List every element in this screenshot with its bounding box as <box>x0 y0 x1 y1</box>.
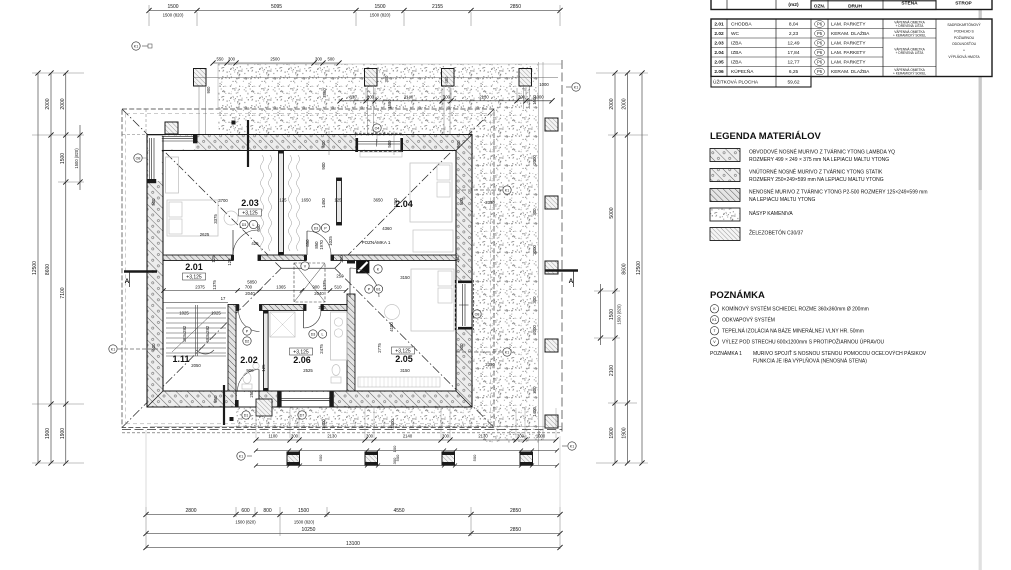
svg-text:2100: 2100 <box>609 365 615 376</box>
svg-text:K1: K1 <box>505 350 509 354</box>
svg-text:POŽIARNOU: POŽIARNOU <box>954 35 975 40</box>
svg-text:2.06: 2.06 <box>293 355 311 365</box>
svg-text:800: 800 <box>263 508 272 514</box>
svg-text:5095: 5095 <box>271 4 282 10</box>
svg-text:4100: 4100 <box>389 322 394 332</box>
svg-text:O8: O8 <box>136 156 141 160</box>
svg-text:300: 300 <box>315 57 323 62</box>
svg-text:1365: 1365 <box>276 285 286 290</box>
svg-text:+3,125: +3,125 <box>293 350 309 356</box>
svg-text:300: 300 <box>228 57 236 62</box>
svg-text:2000: 2000 <box>532 155 537 165</box>
svg-text:ODOLNOSŤOU: ODOLNOSŤOU <box>952 41 977 46</box>
svg-text:1500 (820): 1500 (820) <box>74 148 79 169</box>
svg-text:2.01: 2.01 <box>185 262 203 272</box>
svg-text:2000: 2000 <box>622 98 628 109</box>
svg-text:2500: 2500 <box>270 57 280 62</box>
svg-text:8600: 8600 <box>622 263 628 274</box>
svg-text:100: 100 <box>392 445 397 452</box>
svg-text:300: 300 <box>518 94 526 99</box>
svg-text:+: + <box>963 49 965 53</box>
svg-text:POZNÁMKA: POZNÁMKA <box>710 290 765 301</box>
svg-text:+ DREVENÁ LIŠTA: + DREVENÁ LIŠTA <box>896 50 925 55</box>
svg-text:125: 125 <box>334 198 342 203</box>
svg-text:500: 500 <box>151 343 156 351</box>
svg-text:250: 250 <box>318 305 326 310</box>
svg-text:1500: 1500 <box>374 4 385 10</box>
svg-text:2000: 2000 <box>532 245 537 255</box>
svg-text:900: 900 <box>312 285 320 290</box>
svg-text:1500: 1500 <box>609 309 615 320</box>
svg-text:1450: 1450 <box>321 198 326 208</box>
svg-text:2130: 2130 <box>478 434 488 439</box>
svg-text:8600: 8600 <box>45 264 51 275</box>
svg-text:POZNÁMKA 1: POZNÁMKA 1 <box>362 239 391 245</box>
svg-text:59,62: 59,62 <box>787 80 799 86</box>
svg-text:1900: 1900 <box>60 428 66 439</box>
svg-text:1900: 1900 <box>45 428 51 439</box>
svg-text:900: 900 <box>246 368 254 373</box>
svg-text:850: 850 <box>305 239 310 247</box>
svg-text:+3,125: +3,125 <box>186 275 202 281</box>
svg-text:1375: 1375 <box>322 280 327 290</box>
svg-text:2475: 2475 <box>319 344 324 354</box>
svg-text:1025: 1025 <box>211 311 221 316</box>
svg-text:300: 300 <box>291 434 299 439</box>
svg-text:1250: 1250 <box>393 198 398 208</box>
svg-text:+ KERAMICKÝ SOKEL: + KERAMICKÝ SOKEL <box>893 71 926 75</box>
svg-text:550: 550 <box>213 395 218 403</box>
svg-text:K1: K1 <box>570 444 574 448</box>
svg-text:1.11: 1.11 <box>172 354 189 364</box>
svg-text:1500 (820): 1500 (820) <box>370 13 391 18</box>
svg-text:P6: P6 <box>817 22 823 27</box>
svg-text:1650: 1650 <box>301 198 311 203</box>
svg-text:2140: 2140 <box>404 94 414 99</box>
svg-text:O4: O4 <box>375 126 380 130</box>
svg-text:2850: 2850 <box>510 527 521 533</box>
svg-text:NENOSNÉ MURIVO Z TVÁRNIC YTONG: NENOSNÉ MURIVO Z TVÁRNIC YTONG P2-500 RO… <box>749 189 928 196</box>
svg-text:2155: 2155 <box>432 4 443 10</box>
svg-text:LAM. PARKETY: LAM. PARKETY <box>831 41 866 47</box>
svg-text:NA LEPIACU MALTU YTONG: NA LEPIACU MALTU YTONG <box>749 197 816 203</box>
svg-text:DRUH: DRUH <box>848 3 862 9</box>
svg-text:1000: 1000 <box>534 94 544 99</box>
svg-text:2000: 2000 <box>532 325 537 335</box>
svg-text:1375: 1375 <box>212 280 217 290</box>
svg-text:125: 125 <box>261 364 266 372</box>
svg-text:PODHĽAD S: PODHĽAD S <box>954 29 974 33</box>
svg-text:P6: P6 <box>817 60 823 65</box>
svg-text:ROZMERY 250×249×599 mm NA LEPI: ROZMERY 250×249×599 mm NA LEPIACU MALTU … <box>749 177 884 183</box>
svg-text:P6: P6 <box>817 41 823 46</box>
svg-text:1500: 1500 <box>387 99 392 109</box>
svg-text:LAM. PARKETY: LAM. PARKETY <box>831 60 866 66</box>
svg-text:300: 300 <box>532 386 537 394</box>
svg-text:1500: 1500 <box>298 508 309 514</box>
svg-text:500: 500 <box>321 140 326 148</box>
svg-text:K1: K1 <box>239 454 243 458</box>
svg-text:K1: K1 <box>712 318 716 322</box>
svg-text:SADROKARTÓNOVÝ: SADROKARTÓNOVÝ <box>947 22 981 27</box>
svg-text:1500 (820): 1500 (820) <box>235 520 256 525</box>
svg-text:1025: 1025 <box>179 311 189 316</box>
svg-text:500: 500 <box>472 454 477 461</box>
svg-text:LEGENDA MATERIÁLOV: LEGENDA MATERIÁLOV <box>710 131 821 142</box>
svg-text:2800: 2800 <box>185 508 196 514</box>
svg-text:IZBA: IZBA <box>731 50 742 56</box>
svg-text:2,23: 2,23 <box>789 31 799 37</box>
svg-text:183x282: 183x282 <box>182 325 187 342</box>
svg-text:LAM. PARKETY: LAM. PARKETY <box>831 22 866 28</box>
svg-text:250: 250 <box>455 255 460 263</box>
svg-text:NÁSYP KAMENIVA: NÁSYP KAMENIVA <box>749 210 793 217</box>
svg-text:D3: D3 <box>242 223 247 227</box>
svg-text:13100: 13100 <box>346 541 360 547</box>
svg-text:OBVODOVÉ NOSNÉ MURIVO Z TVÁRNI: OBVODOVÉ NOSNÉ MURIVO Z TVÁRNIC YTONG LA… <box>749 149 895 156</box>
svg-text:+3,125: +3,125 <box>395 349 411 355</box>
svg-text:P5: P5 <box>817 31 823 36</box>
svg-text:3150: 3150 <box>400 275 410 280</box>
svg-text:O8: O8 <box>475 312 480 316</box>
svg-text:2040: 2040 <box>245 291 255 296</box>
svg-text:500: 500 <box>459 343 464 351</box>
svg-text:K1: K1 <box>574 85 578 89</box>
svg-text:2.06: 2.06 <box>714 69 724 75</box>
svg-text:900: 900 <box>321 162 326 170</box>
svg-text:2130: 2130 <box>327 434 337 439</box>
svg-text:125: 125 <box>279 198 287 203</box>
svg-text:3375: 3375 <box>213 214 218 224</box>
svg-text:425: 425 <box>251 241 259 246</box>
svg-text:250: 250 <box>249 390 254 398</box>
svg-text:1900: 1900 <box>609 427 615 438</box>
svg-text:3700: 3700 <box>218 198 228 203</box>
svg-text:300: 300 <box>443 94 451 99</box>
svg-text:K1: K1 <box>111 347 115 351</box>
svg-text:OZN.: OZN. <box>814 3 825 9</box>
svg-text:450: 450 <box>444 76 449 84</box>
svg-text:MURIVO SPOJIŤ S NOSNOU STENOU: MURIVO SPOJIŤ S NOSNOU STENOU POMOCOU OC… <box>753 349 927 357</box>
svg-text:ŽELEZOBETÓN C30/37: ŽELEZOBETÓN C30/37 <box>749 229 803 237</box>
svg-text:A: A <box>125 278 130 285</box>
svg-text:300: 300 <box>384 75 389 83</box>
svg-text:2040: 2040 <box>314 291 324 296</box>
svg-text:12500: 12500 <box>636 261 642 275</box>
svg-text:300: 300 <box>442 434 450 439</box>
svg-text:STROP: STROP <box>955 1 972 7</box>
svg-text:2.04: 2.04 <box>714 50 724 56</box>
svg-text:KÚPEĽŇA: KÚPEĽŇA <box>731 68 754 75</box>
svg-text:1000: 1000 <box>539 82 549 87</box>
svg-text:300: 300 <box>392 457 397 464</box>
svg-text:700: 700 <box>245 285 253 290</box>
svg-text:2.02: 2.02 <box>714 31 724 37</box>
svg-text:LAM. PARKETY: LAM. PARKETY <box>831 50 866 56</box>
svg-text:4360: 4360 <box>382 226 392 231</box>
svg-text:2775: 2775 <box>377 343 382 353</box>
svg-text:ODKVAPOVÝ SYSTÉM: ODKVAPOVÝ SYSTÉM <box>722 317 775 324</box>
svg-text:600: 600 <box>256 224 261 232</box>
svg-text:300: 300 <box>532 296 537 304</box>
svg-text:STENA: STENA <box>901 1 918 7</box>
svg-text:VNÚTORNÉ NOSNÉ MURIVO Z TVÁRNI: VNÚTORNÉ NOSNÉ MURIVO Z TVÁRNIC YTONG ST… <box>749 169 883 176</box>
svg-text:1500 (820): 1500 (820) <box>163 13 184 18</box>
svg-text:1025: 1025 <box>328 236 333 246</box>
svg-text:250: 250 <box>336 274 344 279</box>
svg-text:D7: D7 <box>300 413 305 417</box>
svg-text:KOMÍNOVÝ SYSTÉM SCHIEDEL ROZM: KOMÍNOVÝ SYSTÉM SCHIEDEL ROZME 360x360mm… <box>722 306 869 313</box>
svg-text:P6: P6 <box>817 50 823 55</box>
svg-text:2850: 2850 <box>510 508 521 514</box>
svg-text:D2: D2 <box>245 339 250 343</box>
svg-text:300: 300 <box>532 208 537 216</box>
svg-text:+ DREVENÁ LIŠTA: + DREVENÁ LIŠTA <box>896 23 925 28</box>
svg-text:500: 500 <box>151 198 156 206</box>
svg-text:500: 500 <box>387 140 392 148</box>
svg-text:2350: 2350 <box>485 362 495 367</box>
svg-text:17: 17 <box>221 296 226 301</box>
svg-text:2.03: 2.03 <box>241 198 259 208</box>
svg-text:D1: D1 <box>244 413 249 417</box>
svg-text:1500 (820): 1500 (820) <box>294 520 315 525</box>
svg-text:2550: 2550 <box>322 88 327 98</box>
svg-text:2.02: 2.02 <box>240 355 258 365</box>
svg-text:500: 500 <box>318 454 323 461</box>
svg-text:+3,125: +3,125 <box>242 211 258 217</box>
svg-text:L: L <box>322 332 324 336</box>
svg-text:1970: 1970 <box>319 240 324 250</box>
svg-text:1900: 1900 <box>622 427 628 438</box>
svg-text:300: 300 <box>367 94 375 99</box>
svg-text:250: 250 <box>339 255 344 263</box>
svg-text:5000: 5000 <box>609 207 615 218</box>
svg-text:POZNÁMKA 1: POZNÁMKA 1 <box>710 350 742 357</box>
svg-text:7100: 7100 <box>60 287 66 298</box>
svg-text:4550: 4550 <box>393 508 404 514</box>
svg-text:17,84: 17,84 <box>787 50 799 56</box>
svg-text:2.05: 2.05 <box>395 354 413 364</box>
svg-text:1400: 1400 <box>321 419 326 429</box>
svg-text:12,77: 12,77 <box>787 60 799 66</box>
svg-text:2000: 2000 <box>609 98 615 109</box>
svg-text:2625: 2625 <box>200 232 210 237</box>
svg-text:ROZMERY 499 × 249 × 375 mm NA: ROZMERY 499 × 249 × 375 mm NA LEPIACU MA… <box>749 157 889 163</box>
svg-text:(m2): (m2) <box>788 2 799 8</box>
svg-text:1500 (820): 1500 (820) <box>617 304 622 325</box>
svg-text:2525: 2525 <box>303 368 313 373</box>
svg-text:A: A <box>569 278 574 285</box>
svg-text:2350: 2350 <box>485 200 495 205</box>
svg-text:10250: 10250 <box>302 527 316 533</box>
svg-text:3150: 3150 <box>400 368 410 373</box>
svg-text:900: 900 <box>206 86 211 94</box>
svg-text:CHODBA: CHODBA <box>731 22 752 28</box>
svg-text:1400: 1400 <box>532 407 537 417</box>
svg-text:2375: 2375 <box>195 285 205 290</box>
svg-text:183x282: 183x282 <box>205 325 210 342</box>
svg-text:830: 830 <box>350 94 358 99</box>
svg-text:P5: P5 <box>817 69 823 74</box>
svg-text:1100: 1100 <box>268 434 278 439</box>
svg-text:D3: D3 <box>311 332 316 336</box>
svg-text:8,04: 8,04 <box>789 22 799 28</box>
svg-text:WC: WC <box>731 31 740 37</box>
svg-text:2000: 2000 <box>45 98 51 109</box>
svg-text:1500: 1500 <box>167 4 178 10</box>
svg-text:500: 500 <box>459 197 464 205</box>
svg-text:3650: 3650 <box>373 198 383 203</box>
svg-text:12,49: 12,49 <box>787 41 799 47</box>
svg-text:FUNKCIA JE IBA VÝPLŇOVÁ (NENOS: FUNKCIA JE IBA VÝPLŇOVÁ (NENOSNÁ STENA) <box>753 358 867 365</box>
svg-text:2.05: 2.05 <box>714 60 724 66</box>
svg-text:510: 510 <box>334 285 342 290</box>
svg-text:K1: K1 <box>505 188 509 192</box>
svg-text:VÝPLŇOVÁ HMOTA: VÝPLŇOVÁ HMOTA <box>948 55 980 59</box>
svg-text:L: L <box>253 223 255 227</box>
svg-text:300: 300 <box>366 434 374 439</box>
svg-text:B1: B1 <box>376 287 380 291</box>
svg-text:IZBA: IZBA <box>731 41 742 47</box>
svg-text:VÝLEZ POD STRECHU 600x1200mm S: VÝLEZ POD STRECHU 600x1200mm S PROTIPOŽI… <box>722 338 885 346</box>
svg-text:IZBA: IZBA <box>731 60 742 66</box>
svg-text:125: 125 <box>227 258 232 266</box>
svg-text:+ KERAMICKÝ SOKEL: + KERAMICKÝ SOKEL <box>893 33 926 37</box>
svg-text:6,25: 6,25 <box>789 69 799 75</box>
svg-text:K1: K1 <box>134 44 138 48</box>
svg-text:2000: 2000 <box>60 98 66 109</box>
svg-text:TEPELNÁ IZOLÁCIA NA BÁZE MINER: TEPELNÁ IZOLÁCIA NA BÁZE MINERÁLNEJ VLNY… <box>722 328 864 335</box>
svg-text:2130: 2130 <box>479 94 489 99</box>
svg-text:300: 300 <box>517 434 525 439</box>
svg-text:1000: 1000 <box>536 434 546 439</box>
svg-text:1500: 1500 <box>60 153 66 164</box>
svg-text:2050: 2050 <box>191 363 201 368</box>
svg-text:2850: 2850 <box>510 4 521 10</box>
svg-text:12500: 12500 <box>32 261 38 275</box>
svg-text:2.01: 2.01 <box>714 22 724 28</box>
svg-text:D3: D3 <box>314 226 319 230</box>
svg-text:600: 600 <box>241 508 250 514</box>
svg-text:125: 125 <box>211 255 216 263</box>
svg-text:500: 500 <box>328 57 336 62</box>
svg-text:2140: 2140 <box>403 434 413 439</box>
svg-text:550: 550 <box>217 57 225 62</box>
svg-text:1400: 1400 <box>390 419 395 429</box>
svg-text:2.03: 2.03 <box>714 41 724 47</box>
svg-text:500: 500 <box>456 140 461 148</box>
